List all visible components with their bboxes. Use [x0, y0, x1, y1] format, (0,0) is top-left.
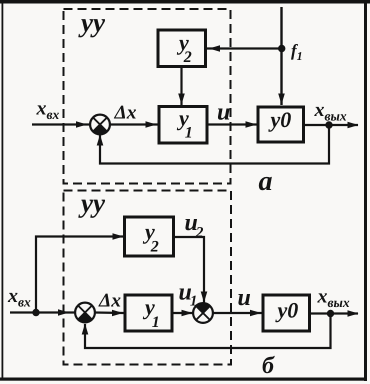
wire input x_vx (diagram a)	[32, 121, 90, 128]
svg-text:уу: уу	[78, 8, 106, 38]
dashed box УУ (diagram a)	[64, 9, 231, 184]
svg-text:Δx: Δx	[114, 103, 137, 124]
node branch dot (diagram b)	[32, 309, 39, 316]
wire f1 to У2 (diagram a)	[207, 45, 282, 52]
block У1 (diagram b)	[125, 295, 172, 332]
node x_vyh dot (diagram b)	[327, 310, 334, 317]
wire УО output (diagram a)	[303, 122, 359, 129]
block УО (diagram a)	[258, 107, 304, 142]
svg-text:у0: у0	[275, 298, 299, 323]
wire feedback (diagram a)	[97, 125, 329, 164]
dashed box УУ (diagram b)	[64, 191, 232, 365]
svg-text:у0: у0	[268, 107, 292, 132]
summing junction S2 (diagram b)	[193, 303, 213, 323]
svg-text:а: а	[259, 166, 273, 197]
block У2 (diagram a)	[158, 30, 206, 67]
wire У2 to S2 with label u2 (diagram b)	[173, 237, 207, 303]
node f1 junction dot	[278, 45, 285, 52]
node x_vyh dot (diagram a)	[325, 121, 332, 128]
svg-text:уу: уу	[78, 188, 106, 218]
wire S1 to У1 (diagram a)	[110, 121, 158, 128]
svg-text:б: б	[262, 353, 275, 379]
wire f1 vertical into УО (diagram a)	[278, 7, 285, 105]
wire branch to У2 (diagram b)	[36, 233, 124, 312]
wire S2 to УО with label u (diagram b)	[213, 310, 263, 317]
svg-text:u: u	[238, 285, 251, 311]
block УО (diagram b)	[263, 295, 310, 331]
wire input x_vx (diagram b)	[10, 309, 76, 316]
wire S1 to У1 (diagram b)	[95, 310, 124, 317]
summing junction S1 (diagram b)	[75, 303, 95, 323]
svg-text:Δx: Δx	[98, 291, 121, 312]
wire У1 to S2 (diagram b)	[172, 310, 194, 317]
block У2 (diagram b)	[125, 217, 174, 256]
wire У2 to У1 (diagram a)	[178, 66, 185, 105]
wire У1 to УО with label u (diagram a)	[207, 121, 257, 128]
block У1 (diagram a)	[159, 106, 207, 144]
summing junction S1 (diagram a)	[90, 115, 110, 135]
wire feedback (diagram b)	[82, 314, 331, 349]
wire УО output (diagram b)	[309, 310, 359, 317]
svg-text:u: u	[217, 100, 230, 126]
